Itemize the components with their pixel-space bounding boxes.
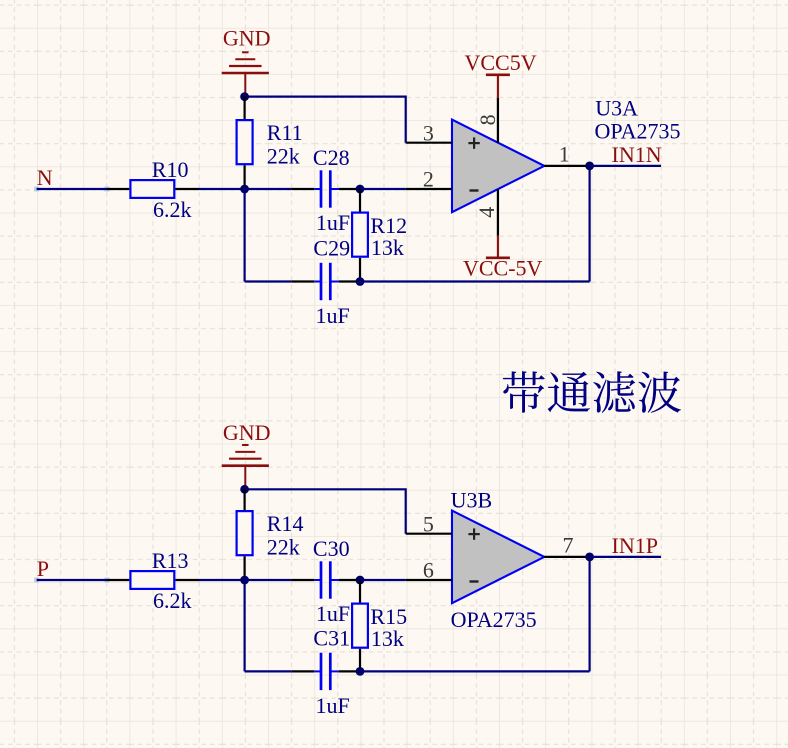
- C29 pin 1 lead: [291, 280, 314, 282]
- svg-text:3: 3: [423, 121, 434, 146]
- wire P to R13: [37, 579, 107, 581]
- svg-text:VCC5V: VCC5V: [465, 50, 537, 75]
- pin lead + input (pin 5): [406, 533, 452, 535]
- svg-text:C31: C31: [313, 625, 350, 650]
- R10 pin 2 lead: [175, 188, 199, 190]
- svg-text:OPA2735: OPA2735: [595, 118, 681, 143]
- op-amp U3B body: [452, 511, 544, 604]
- pin lead output (pin 7): [544, 556, 589, 558]
- wire node B to op-amp - input: [360, 188, 406, 190]
- wire node A to C30: [245, 579, 292, 581]
- off-grid marker at R10 pin: [105, 187, 110, 192]
- wire from GND node to op-amp + input (top rail): [245, 97, 406, 143]
- junction node B: [356, 576, 365, 585]
- wire R13 to node A: [199, 579, 245, 581]
- R15 pin 1 lead: [359, 580, 361, 603]
- svg-text:R11: R11: [267, 120, 303, 145]
- power port VCC5V symbol: [486, 75, 510, 98]
- R12 pin 1 lead: [359, 189, 361, 212]
- junction node C: [356, 667, 365, 676]
- ground symbol (power port GND): [222, 445, 269, 489]
- svg-text:1uF: 1uF: [316, 601, 350, 626]
- resistor R11 body: [237, 120, 253, 164]
- resistor R10 body: [130, 180, 174, 198]
- wire bottom rail to C31: [245, 670, 292, 672]
- svg-text:R14: R14: [267, 511, 304, 536]
- wire node A down to bottom rail: [244, 580, 246, 671]
- svg-text:8: 8: [475, 114, 500, 125]
- wire bottom rail to C29: [245, 280, 292, 282]
- C28 pin 1 lead: [291, 188, 314, 190]
- svg-text:5: 5: [423, 512, 434, 537]
- off-grid marker at R13 pin: [105, 578, 110, 583]
- R12 pin 2 lead: [359, 258, 361, 282]
- junction at GND node: [240, 485, 249, 494]
- svg-text:1: 1: [559, 142, 570, 167]
- svg-text:1uF: 1uF: [316, 303, 350, 328]
- R15 pin 2 lead: [359, 649, 361, 672]
- C30 pin 2 lead: [339, 579, 360, 581]
- op-amp U3B plus marker: [468, 528, 479, 539]
- svg-text:1uF: 1uF: [316, 210, 350, 235]
- svg-text:IN1P: IN1P: [612, 533, 658, 558]
- svg-text:22k: 22k: [267, 144, 300, 169]
- op-amp U3A minus marker: [470, 189, 479, 191]
- resistor R15 body: [352, 604, 368, 648]
- svg-text:GND: GND: [223, 26, 271, 51]
- svg-text:C28: C28: [313, 145, 350, 170]
- svg-text:6.2k: 6.2k: [153, 197, 192, 222]
- title text 带通滤波 (band-pass filter): [503, 371, 681, 413]
- R14 pin 1 (top lead): [244, 489, 246, 510]
- svg-text:R13: R13: [152, 548, 189, 573]
- svg-text:7: 7: [563, 533, 574, 558]
- resistor R13 body: [130, 571, 174, 589]
- C31 pin 1 lead: [291, 670, 314, 672]
- wire output to net label IN1P: [590, 556, 661, 558]
- junction node C: [356, 277, 365, 286]
- wire node A down to bottom rail: [244, 189, 246, 282]
- R13 pin 2 lead: [175, 579, 199, 581]
- pin 8 lead (V+): [497, 98, 499, 143]
- capacitor C30 symbol: [314, 561, 338, 598]
- pin lead output (pin 1): [544, 165, 589, 167]
- svg-text:2: 2: [423, 166, 434, 191]
- resistor R14 body: [237, 511, 253, 555]
- wire R10 to node A: [199, 188, 245, 190]
- svg-text:C29: C29: [313, 236, 350, 261]
- capacitor C31 symbol: [314, 653, 338, 690]
- svg-text:R10: R10: [152, 157, 189, 182]
- svg-text:13k: 13k: [371, 235, 404, 260]
- wire bottom rail node C to output: [360, 280, 590, 282]
- R14 pin 2 (bottom lead): [244, 556, 246, 580]
- wire output down to bottom rail: [588, 557, 590, 672]
- junction node A: [240, 576, 249, 585]
- svg-text:P: P: [37, 556, 49, 581]
- resistor R12 body: [352, 213, 368, 257]
- R11 pin 2 (bottom lead): [244, 165, 246, 189]
- svg-text:4: 4: [474, 207, 499, 218]
- pin 4 lead (V-): [497, 189, 499, 236]
- pin lead + input (pin 3): [406, 142, 452, 144]
- wire from GND node to op-amp + input (top rail): [245, 489, 406, 533]
- junction at output node: [585, 162, 594, 171]
- junction at output node: [585, 553, 594, 562]
- svg-text:IN1N: IN1N: [612, 142, 662, 167]
- svg-text:GND: GND: [223, 420, 271, 445]
- wire bottom rail node C to output: [360, 670, 590, 672]
- R13 pin 1 lead: [107, 579, 129, 581]
- wire end marker at N: [34, 187, 39, 192]
- ground symbol (power port GND): [222, 52, 269, 96]
- op-amp U3A body: [452, 120, 544, 213]
- junction node B: [356, 185, 365, 194]
- R10 pin 1 lead: [107, 188, 129, 190]
- svg-text:N: N: [37, 165, 53, 190]
- power port VCC-5V symbol: [486, 236, 510, 258]
- junction node A: [240, 185, 249, 194]
- op-amp U3A plus marker: [468, 137, 479, 148]
- svg-text:6.2k: 6.2k: [153, 588, 192, 613]
- pin lead - input (pin 2): [406, 188, 452, 190]
- svg-text:1uF: 1uF: [316, 693, 350, 718]
- C28 pin 2 lead: [339, 188, 360, 190]
- wire output down to bottom rail: [588, 166, 590, 282]
- svg-text:OPA2735: OPA2735: [451, 607, 537, 632]
- junction at GND node: [240, 92, 249, 101]
- svg-text:VCC-5V: VCC-5V: [463, 255, 543, 280]
- wire output to net label IN1N: [590, 165, 661, 167]
- svg-text:6: 6: [423, 557, 434, 582]
- capacitor C28 symbol: [314, 170, 338, 207]
- capacitor C29 symbol: [314, 263, 338, 300]
- wire end marker at P: [34, 578, 39, 583]
- svg-text:22k: 22k: [267, 535, 300, 560]
- R11 pin 1 (top lead): [244, 97, 246, 119]
- op-amp U3B minus marker: [470, 580, 479, 582]
- wire N to R10: [37, 188, 107, 190]
- C30 pin 1 lead: [291, 579, 314, 581]
- svg-text:U3A: U3A: [595, 95, 638, 120]
- C29 pin 2 lead: [339, 280, 360, 282]
- wire node A to C28: [245, 188, 292, 190]
- C31 pin 2 lead: [339, 670, 360, 672]
- pin lead - input (pin 6): [406, 579, 452, 581]
- wire node B to op-amp - input: [360, 579, 406, 581]
- svg-text:U3B: U3B: [451, 487, 493, 512]
- svg-text:C30: C30: [313, 536, 350, 561]
- svg-text:13k: 13k: [371, 626, 404, 651]
